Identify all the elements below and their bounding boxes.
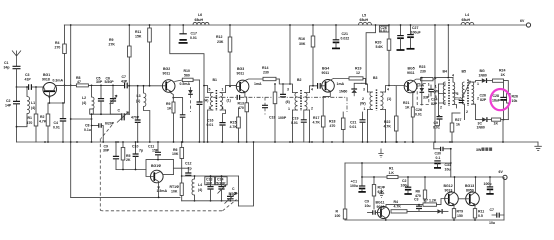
- svg-text:B4: B4: [443, 70, 448, 74]
- mid ground rail: [17, 141, 539, 143]
- svg-text:100u: 100u: [350, 184, 358, 188]
- svg-text:(1): (1): [387, 97, 391, 101]
- svg-text:B2: B2: [297, 78, 302, 82]
- svg-text:1N60: 1N60: [479, 74, 487, 78]
- capacitor C2 100u: [401, 176, 412, 194]
- svg-text:9011: 9011: [407, 71, 415, 75]
- top supply rail: [64, 24, 526, 26]
- wire bottom left long y197.4: [71, 196, 180, 198]
- capacitor C19 0.01: [291, 110, 307, 142]
- capacitor C11 15P: [148, 141, 161, 160]
- svg-text:C21: C21: [350, 121, 356, 125]
- svg-text:C3: C3: [25, 73, 30, 77]
- capacitor C4 0.01 (emitter bypass): [53, 102, 66, 143]
- svg-text:0.022: 0.022: [341, 37, 350, 41]
- svg-text:R6: R6: [416, 190, 421, 194]
- wire B4 centre tap to rail: [447, 25, 449, 78]
- inductor L6 on rail: [193, 22, 209, 25]
- wire long left vertical x345: [344, 163, 346, 210]
- capacitor 0.01 (BG3 emitter bypass): [262, 97, 287, 120]
- svg-text:R27: R27: [455, 118, 461, 122]
- wire osc top line y169.5/y159.6: [116, 160, 173, 170]
- speaker note text 3W扬声器: [476, 148, 492, 153]
- svg-text:3W: 3W: [476, 148, 482, 152]
- transformer B2: [279, 78, 317, 143]
- wire BG1 emitter line: [48, 102, 65, 104]
- resistor R4 270 (from rail to emitter node): [55, 25, 67, 103]
- svg-text:C4: C4: [54, 121, 59, 125]
- svg-text:RT9: RT9: [457, 210, 464, 214]
- svg-text:R18: R18: [329, 120, 335, 124]
- svg-text:0.01: 0.01: [433, 126, 440, 130]
- svg-text:4.7K: 4.7K: [384, 125, 392, 129]
- capacitor C5 (on coupling wire): [414, 198, 422, 212]
- resistor R1 1K (supply series on y177): [387, 167, 398, 179]
- ground symbol (x381 upper): [378, 149, 383, 158]
- svg-text:1.5mA: 1.5mA: [157, 189, 168, 193]
- capacitor 100u (output supply): [484, 176, 494, 194]
- svg-text:100: 100: [335, 214, 341, 218]
- resistor R27 1k: [450, 113, 461, 143]
- svg-text:560: 560: [184, 74, 190, 78]
- svg-text:230: 230: [420, 70, 426, 74]
- resistor R24 1K: [493, 69, 509, 94]
- svg-text:C26: C26: [416, 108, 422, 112]
- svg-text:B1: B1: [213, 78, 218, 82]
- svg-text:(4): (4): [82, 101, 86, 105]
- wire osc bottom y200.8: [182, 200, 239, 202]
- audio bottom rail: [345, 219, 504, 221]
- svg-text:7p: 7p: [139, 149, 143, 153]
- resistor RT10 10K (below R6): [170, 183, 184, 201]
- svg-text:1K: 1K: [167, 107, 172, 111]
- svg-text:5/30P: 5/30P: [105, 80, 115, 84]
- svg-text:R2: R2: [40, 115, 45, 119]
- svg-text:2: 2: [440, 106, 442, 110]
- svg-text:BG3: BG3: [237, 67, 244, 71]
- svg-text:(4): (4): [198, 188, 202, 192]
- svg-text:9012: 9012: [377, 205, 385, 209]
- svg-text:100u: 100u: [484, 182, 492, 186]
- svg-text:1: 1: [288, 107, 290, 111]
- svg-text:C24: C24: [431, 98, 437, 102]
- svg-text:R13: R13: [238, 102, 244, 106]
- svg-text:6V: 6V: [520, 19, 525, 23]
- capacitor (AGC filter at 283): [280, 83, 286, 97]
- capacitor C9 30P (below rail): [103, 141, 119, 169]
- svg-text:B5: B5: [462, 70, 467, 74]
- svg-text:30P: 30P: [96, 80, 103, 84]
- 6V terminal: [520, 19, 531, 27]
- wire output right vertical: [503, 177, 505, 220]
- wire C3 to base: [32, 86, 44, 88]
- diode D9 1N60 (detector): [479, 69, 497, 83]
- svg-text:470P: 470P: [131, 116, 140, 120]
- svg-text:0.01: 0.01: [380, 29, 387, 33]
- svg-text:R14: R14: [262, 66, 268, 70]
- svg-text:C3: C3: [414, 198, 419, 202]
- svg-text:27K: 27K: [109, 43, 116, 47]
- svg-text:68uH: 68uH: [360, 18, 369, 22]
- svg-text:C27: C27: [412, 26, 418, 30]
- svg-text:C7: C7: [490, 208, 495, 212]
- svg-text:L2: L2: [82, 96, 86, 100]
- svg-text:C18: C18: [269, 116, 275, 120]
- svg-text:R10: R10: [184, 69, 190, 73]
- svg-text:L6: L6: [198, 13, 202, 17]
- svg-text:10K: 10K: [172, 152, 179, 156]
- capacitor C7 10u (output): [489, 208, 504, 225]
- svg-text:9011: 9011: [163, 72, 171, 76]
- svg-text:R19: R19: [355, 67, 361, 71]
- svg-text:0.5: 0.5: [478, 214, 483, 218]
- resistor R10 560 (BG2 collector): [174, 69, 199, 82]
- wire x70.7 to L2 bottom y119: [71, 118, 92, 120]
- svg-text:R9: R9: [166, 102, 171, 106]
- capacitor C28 10uF (inside pink circle): [480, 83, 507, 121]
- resistor R11 0.5 (BG13 emitter): [473, 209, 484, 220]
- svg-text:1K: 1K: [494, 122, 499, 126]
- resistor R11 15K (BG2 base bias): [135, 24, 151, 87]
- resistor R17 4.7K (BG4 emitter): [313, 96, 331, 143]
- svg-text:(4): (4): [31, 106, 35, 110]
- resistor R7 1.2K (on coupling wire): [423, 199, 444, 207]
- svg-text:0.01: 0.01: [291, 121, 298, 125]
- resistor R26 10k (on vertical): [507, 94, 518, 120]
- svg-text:L1: L1: [31, 101, 35, 105]
- svg-text:34p: 34p: [4, 66, 10, 70]
- svg-text:18uF: 18uF: [492, 99, 501, 103]
- svg-text:0.3mA: 0.3mA: [53, 79, 64, 83]
- svg-text:C19: C19: [292, 117, 298, 121]
- transistor BG13 8050: [465, 176, 479, 209]
- svg-text:L5: L5: [362, 14, 366, 18]
- resistor R18 470: [329, 112, 345, 143]
- svg-text:1: 1: [222, 88, 224, 92]
- transistor BG2 9011: [162, 67, 190, 93]
- svg-text:C26: C26: [480, 94, 486, 98]
- capacitor C3 41P (series to BG1 base): [25, 73, 32, 90]
- svg-text:1.2K: 1.2K: [429, 199, 437, 203]
- wire osc right vertical: [238, 176, 240, 206]
- svg-text:0.5mA: 0.5mA: [180, 82, 191, 86]
- svg-text:4.7K: 4.7K: [39, 120, 47, 124]
- node antenna/base junction: [16, 86, 18, 88]
- audio supply wire y163: [345, 162, 451, 164]
- svg-text:0.1u: 0.1u: [84, 128, 91, 132]
- wire rail drop x435 through collector line to mid rail: [434, 25, 436, 142]
- svg-text:30P: 30P: [103, 149, 110, 153]
- wire rail drop x364 to B3: [366, 25, 375, 84]
- svg-text:4: 4: [452, 74, 454, 78]
- svg-text:100P: 100P: [278, 116, 287, 120]
- transformer B4: [434, 70, 459, 116]
- capacitor C23 (between B4 and B5): [459, 100, 464, 102]
- svg-text:R1Φ: R1Φ: [378, 186, 385, 190]
- svg-text:R24: R24: [499, 69, 505, 73]
- inductor L4 on rail: [461, 22, 474, 25]
- transistor BG1 9018: [42, 73, 63, 103]
- svg-text:1mA: 1mA: [254, 82, 262, 86]
- dashed gang link (diagonal near C6): [101, 125, 112, 139]
- inductor L4 (4) osc tank: [192, 175, 202, 202]
- svg-text:4: 4: [311, 88, 313, 92]
- resistor R4 4.7K (chain y211.5): [391, 200, 437, 213]
- svg-text:C28: C28: [493, 94, 499, 98]
- capacitor C5 30P: [96, 77, 104, 116]
- svg-text:1: 1: [435, 85, 437, 89]
- svg-text:230: 230: [263, 71, 269, 75]
- resistor R5 2K: [121, 141, 131, 170]
- resistor R33 100: [335, 209, 347, 220]
- wire from rail down at x71.5 to collector line and to bottom left block: [70, 25, 72, 197]
- svg-text:1K: 1K: [405, 106, 410, 110]
- resistor R6 10K: [172, 141, 184, 183]
- resistor BG5 emitter 1K: [403, 95, 414, 143]
- capacitor 470P (L3 bottom): [131, 85, 141, 143]
- transformer B3: [360, 76, 395, 143]
- svg-text:(1): (1): [136, 99, 140, 103]
- capacitor C24 (under B4): [431, 98, 438, 107]
- svg-text:R15: R15: [230, 121, 236, 125]
- svg-text:30P: 30P: [206, 181, 213, 185]
- capacitor C12 7p (osc feedback): [173, 162, 191, 176]
- svg-text:9013: 9013: [445, 188, 453, 192]
- capacitor C13 30P (boxed label): [205, 175, 215, 202]
- capacitor C10 7p: [132, 141, 143, 170]
- wire detector out y115.5: [439, 116, 440, 117]
- svg-text:82P: 82P: [431, 102, 438, 106]
- resistor R19 120 (BG4 collector): [331, 67, 368, 93]
- dashed gang link diagonal to osc C: [223, 200, 237, 211]
- transformer B5: [455, 70, 482, 120]
- resistor R1 470 (base bias): [27, 86, 38, 142]
- capacitor C21 0.022 (rail bypass): [332, 24, 349, 48]
- svg-text:C1: C1: [4, 61, 9, 65]
- transistor BG5 9011: [395, 67, 425, 95]
- resistor R15 (collector node to gnd): [273, 83, 277, 143]
- svg-text:1N60: 1N60: [477, 126, 485, 130]
- svg-text:C10: C10: [132, 145, 138, 149]
- svg-text:1: 1: [209, 106, 211, 110]
- resistor R12 23K (rail to BG3 base): [216, 24, 232, 87]
- svg-text:1: 1: [477, 82, 479, 86]
- svg-text:68uH: 68uH: [195, 18, 204, 22]
- svg-text:470: 470: [330, 124, 336, 128]
- svg-text:0.01: 0.01: [207, 123, 214, 127]
- svg-text:1.K: 1.K: [389, 171, 395, 175]
- svg-text:10u: 10u: [365, 204, 371, 208]
- svg-text:C17: C17: [455, 97, 461, 101]
- svg-text:62K: 62K: [378, 190, 385, 194]
- svg-text:1mA: 1mA: [337, 82, 345, 86]
- transformer B1: [203, 78, 236, 143]
- svg-text:270: 270: [55, 46, 61, 50]
- svg-text:0.1: 0.1: [436, 156, 441, 160]
- wire x451 down from R27 through C30 node to audio rail: [450, 149, 452, 177]
- svg-text:4: 4: [387, 88, 389, 92]
- svg-text:C21: C21: [342, 32, 348, 36]
- wire antenna down to base line: [16, 69, 18, 87]
- pink highlight circle: [491, 89, 511, 110]
- resistor R13 470 (BG3 emitter): [238, 97, 249, 143]
- capacitor C2 14P (antenna line to ground rail): [5, 87, 20, 142]
- wire BG10 base left loop: [163, 174, 173, 176]
- capacitor C25 0.01: [415, 108, 443, 130]
- svg-text:R12: R12: [216, 35, 222, 39]
- svg-text:82P: 82P: [480, 98, 487, 102]
- svg-text:2: 2: [311, 107, 313, 111]
- diode D1 (AGC) with dashed lead: [188, 88, 193, 113]
- svg-text:R1: R1: [28, 116, 33, 120]
- svg-text:10u: 10u: [489, 221, 495, 224]
- svg-text:3: 3: [287, 88, 289, 92]
- transistor BG12 9013: [444, 176, 459, 209]
- svg-text:R26: R26: [512, 95, 518, 99]
- svg-text:R16: R16: [299, 37, 305, 41]
- inductor L1 (4) antenna tank: [16, 86, 36, 128]
- capacitor C8 0.1u: [84, 123, 104, 143]
- diode 2AP9 (detector) with dashes: [339, 83, 362, 97]
- trimmer C 6/20P (osc): [105, 109, 129, 126]
- svg-text:1k: 1k: [456, 123, 460, 127]
- 6V terminal (audio): [499, 170, 508, 179]
- svg-text:L3: L3: [137, 94, 141, 98]
- resistor R20 5.6K (rail to BG5 base): [375, 24, 391, 86]
- resistor R8 47 (collector series): [76, 76, 124, 87]
- svg-text:C17: C17: [191, 32, 197, 36]
- svg-text:C16: C16: [207, 119, 213, 123]
- svg-text:43P: 43P: [121, 79, 128, 83]
- transistor BG11 9012: [376, 201, 390, 221]
- svg-text:15K: 15K: [135, 35, 142, 39]
- svg-text:C12: C12: [185, 162, 191, 166]
- capacitor C1 34p (series in antenna lead): [4, 61, 21, 70]
- driver coupling wire y204.6: [386, 204, 423, 206]
- svg-text:BG2: BG2: [163, 67, 170, 71]
- capacitor series coupling to BG4 base: [318, 83, 322, 89]
- svg-text:4.7K: 4.7K: [230, 125, 238, 129]
- trimmer C 5/20P (osc gang): [225, 187, 239, 204]
- svg-text:33P: 33P: [423, 96, 430, 100]
- svg-text:68uH: 68uH: [462, 18, 471, 22]
- svg-text:41P: 41P: [25, 78, 32, 82]
- resistor R9 27K (from rail to C7 node): [109, 24, 132, 114]
- resistor 1K (lower, on wire y119.6): [492, 118, 509, 143]
- svg-text:BG1Φ: BG1Φ: [151, 164, 161, 168]
- trimmer C14 5/30P (boxed label): [215, 175, 227, 202]
- svg-text:R9: R9: [109, 38, 114, 42]
- svg-text:4: 4: [222, 106, 224, 110]
- dashed gang link horizontal bottom: [100, 209, 222, 212]
- resistor R9a 1K (BG2 emitter): [166, 93, 175, 143]
- svg-text:9011: 9011: [322, 71, 330, 75]
- wire volume line C30: [434, 142, 451, 160]
- diode 3CG 1N60 (lower) on wire y119.6: [476, 117, 493, 129]
- svg-text:6V: 6V: [499, 170, 504, 174]
- svg-text:R20: R20: [375, 41, 381, 45]
- capacitor BG2 emitter bypass: [173, 98, 185, 143]
- svg-text:5/20P: 5/20P: [229, 192, 239, 196]
- wire BG2 collector down to cap node: [198, 80, 200, 102]
- inductor L2 (4) tank: [82, 85, 121, 143]
- svg-text:1: 1: [364, 107, 366, 111]
- svg-text:R21: R21: [403, 101, 409, 105]
- svg-text:3: 3: [363, 88, 365, 92]
- capacitor C26 0.01 (boxed label, rail bypass): [379, 24, 404, 50]
- resistor R16 30K (rail to BG4 base): [299, 24, 315, 87]
- transistor BG3 9011: [236, 67, 262, 97]
- capacitor C1 100u (supply filter): [350, 176, 366, 192]
- inductor L5 on rail: [359, 22, 372, 25]
- svg-text:7p: 7p: [188, 167, 192, 171]
- capacitor C7 43P (series coupling to BG2): [121, 75, 162, 88]
- antenna: [12, 51, 21, 67]
- capacitor at collector node: [197, 102, 203, 143]
- capacitor C31 10u (on audio supply): [434, 161, 451, 172]
- svg-text:9011: 9011: [237, 72, 245, 76]
- svg-text:(W): (W): [434, 90, 440, 94]
- svg-text:1mA: 1mA: [417, 84, 425, 88]
- svg-text:6: 6: [457, 92, 459, 96]
- capacitor 33P (inside dashed box): [428, 85, 433, 96]
- svg-text:100u: 100u: [401, 183, 409, 187]
- resistor R2 4.7K (emitter): [39, 103, 50, 143]
- svg-text:470: 470: [27, 121, 33, 125]
- svg-text:1K: 1K: [501, 73, 506, 77]
- wire rail drop x290 to B2: [289, 25, 291, 84]
- svg-text:C2: C2: [6, 99, 11, 103]
- svg-text:RT1Φ: RT1Φ: [170, 185, 180, 189]
- svg-text:1N60: 1N60: [339, 90, 347, 94]
- svg-text:10k: 10k: [512, 99, 518, 103]
- svg-text:10u: 10u: [445, 168, 451, 172]
- svg-text:R22: R22: [384, 120, 390, 124]
- svg-text:R11: R11: [135, 30, 141, 34]
- wire BG1 collector line: [55, 84, 76, 86]
- resistor R23 230 (BG5 collector): [413, 65, 453, 81]
- svg-text:47: 47: [77, 80, 81, 84]
- svg-text:BG5: BG5: [408, 67, 415, 71]
- svg-text:5: 5: [209, 88, 211, 92]
- resistor 4.7K (BG3 bias lower): [230, 108, 241, 143]
- svg-text:BG1: BG1: [43, 73, 50, 77]
- diode (B4 input, dashed box): [417, 77, 430, 105]
- svg-text:B3: B3: [373, 76, 378, 80]
- svg-text:C31: C31: [445, 163, 451, 167]
- svg-text:(H): (H): [204, 99, 209, 103]
- capacitor C16 0.01 (B1 secondary bottom): [207, 119, 226, 143]
- svg-text:R11: R11: [478, 210, 484, 214]
- mid rail junction dots: [44, 141, 451, 143]
- wire between driver bases: [458, 198, 466, 200]
- svg-text:C9: C9: [434, 121, 439, 125]
- resistor R14 230 (BG3 collector): [245, 66, 279, 81]
- wire base line: [17, 86, 29, 88]
- capacitor C9 10u (audio input): [365, 200, 378, 215]
- resistor R21 4.7K: [384, 86, 399, 143]
- diode (bias): [437, 209, 448, 214]
- svg-text:10K: 10K: [171, 190, 178, 194]
- svg-text:8050: 8050: [466, 188, 474, 192]
- svg-text:15P: 15P: [152, 149, 159, 153]
- svg-text:14P: 14P: [5, 104, 12, 108]
- svg-text:+C1: +C1: [351, 180, 358, 184]
- svg-text:100uF: 100uF: [411, 31, 422, 35]
- capacitor C17 0.01 (rail decoupling): [179, 24, 197, 43]
- capacitor C21b 0.01: [350, 112, 366, 143]
- wire rail drop x169.8 elbow to x204 down to mid rail: [170, 25, 204, 142]
